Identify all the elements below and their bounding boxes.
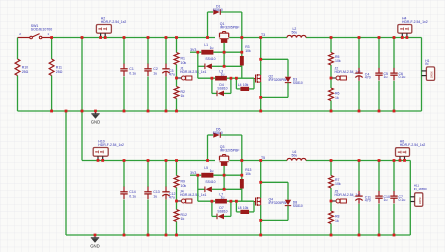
svg-text:10k: 10k	[335, 59, 341, 63]
svg-text:L8: L8	[238, 206, 242, 210]
svg-text:IRF3205PBF: IRF3205PBF	[220, 149, 240, 153]
svg-text:18650: 18650	[431, 71, 434, 79]
transistor Q1 IRF3205PBF	[219, 33, 221, 37]
svg-text:470: 470	[365, 75, 371, 79]
svg-text:1u: 1u	[153, 195, 157, 199]
svg-text:SS810: SS810	[293, 204, 303, 208]
wire C5 column	[378, 38, 380, 69]
resistor R2 1k	[174, 87, 179, 99]
svg-text:R11: R11	[56, 65, 62, 69]
wire divider column R1	[176, 38, 178, 53]
resistor R10 25	[15, 59, 20, 76]
wire left edge	[17, 38, 19, 60]
connector J4 HDR-M-2.54_1x1	[177, 200, 182, 202]
wire C14 column	[123, 161, 125, 188]
svg-text:10k: 10k	[335, 182, 341, 186]
svg-text:SS810: SS810	[213, 8, 223, 12]
svg-text:1u: 1u	[153, 72, 157, 76]
svg-text:R6: R6	[335, 91, 340, 95]
capacitor C13 1u	[147, 187, 149, 192]
capacitor C10 1u	[378, 191, 380, 196]
svg-text:0.1u: 0.1u	[129, 72, 136, 76]
svg-text:10k: 10k	[243, 83, 249, 87]
wire R3 bottom	[241, 66, 243, 79]
wire C2 column	[147, 38, 149, 65]
wire C12 column	[165, 161, 167, 188]
wire D1 right drop	[241, 12, 243, 56]
svg-text:10k: 10k	[181, 61, 187, 65]
transistor Q4 IRF3205PBF	[254, 201, 256, 203]
resistor R1 10k	[174, 53, 179, 65]
wire R11 column	[51, 38, 53, 60]
svg-text:HDR-F-2.54_1x2: HDR-F-2.54_1x2	[98, 143, 124, 147]
svg-text:50u: 50u	[292, 153, 298, 157]
junction dots layer	[50, 36, 408, 236]
inductor L5 1u	[198, 174, 202, 176]
svg-text:10k: 10k	[245, 172, 251, 176]
wire Q4 source	[260, 205, 262, 235]
svg-text:10k: 10k	[181, 184, 187, 188]
inductor L3 1u	[198, 77, 215, 79]
resistor R8 1k	[329, 211, 334, 224]
svg-text:1u: 1u	[384, 75, 388, 79]
wire R13 bottom	[241, 189, 243, 202]
resistor R3 10k	[240, 56, 244, 66]
wire gate stem Q3	[223, 166, 225, 175]
wire right divider column R7	[330, 161, 332, 176]
wire right edge channel 2	[409, 160, 411, 235]
svg-text:R9: R9	[181, 180, 186, 184]
svg-text:1k: 1k	[181, 217, 185, 221]
svg-text:10k: 10k	[243, 206, 249, 210]
svg-text:10k: 10k	[245, 49, 251, 53]
diode D1 SS810	[208, 11, 214, 13]
svg-text:1u: 1u	[221, 196, 225, 200]
wire C10 column	[378, 161, 380, 192]
capacitor C7 0.1u	[393, 191, 395, 196]
svg-text:0.1u: 0.1u	[399, 198, 406, 202]
svg-text:25Ω: 25Ω	[22, 70, 29, 74]
wire Q2 drain	[260, 38, 262, 75]
svg-text:3V3: 3V3	[190, 171, 196, 175]
resistor R11 25	[49, 59, 54, 76]
svg-text:SS810: SS810	[293, 81, 303, 85]
svg-text:SS410: SS410	[205, 180, 215, 184]
inductor L7 1u	[198, 200, 215, 202]
wire Q4 drain	[260, 161, 262, 198]
svg-text:SS810: SS810	[217, 87, 227, 91]
transistor Q2 IRF3205PBF	[254, 78, 256, 80]
svg-text:R12: R12	[181, 213, 187, 217]
connector J1 HDR-M-2.54_1x1	[177, 77, 182, 79]
svg-text:R7: R7	[335, 178, 340, 182]
wire gate column	[223, 175, 225, 189]
svg-text:0.1u: 0.1u	[129, 195, 136, 199]
svg-text:1u: 1u	[221, 73, 225, 77]
wire C3 column	[165, 38, 167, 65]
svg-text:GND: GND	[91, 119, 101, 124]
inductor L1 1u	[198, 51, 202, 53]
svg-text:HDR-F-2.54_1x2: HDR-F-2.54_1x2	[402, 20, 428, 24]
wire top rail	[82, 160, 215, 162]
svg-text:3V3: 3V3	[190, 48, 196, 52]
capacitor C3 47u	[165, 64, 167, 69]
svg-text:L4: L4	[238, 83, 242, 87]
svg-text:1k: 1k	[335, 219, 339, 223]
svg-text:1k: 1k	[335, 96, 339, 100]
transistor Q3 IRF3205PBF	[219, 156, 221, 160]
connector H7 XT60	[415, 193, 423, 207]
svg-text:L1: L1	[204, 43, 208, 47]
svg-text:HDR-M-2.54_1x1: HDR-M-2.54_1x1	[180, 193, 206, 197]
wire bottom rail	[66, 234, 410, 236]
capacitor C5 1u	[378, 68, 380, 73]
svg-text:GND: GND	[90, 243, 100, 248]
wire interconnect column B	[65, 111, 67, 235]
connector H4 HDR-F-2.54_1x2	[398, 25, 412, 34]
svg-text:C13: C13	[153, 190, 159, 194]
resistor L8 10k	[235, 201, 237, 212]
wire C13 column	[147, 161, 149, 188]
connector J5 HDR-M-2.54_1x1	[331, 200, 336, 202]
connector H6 HDR-F-2.54_1x2	[396, 148, 410, 157]
svg-text:L5: L5	[204, 166, 208, 170]
svg-text:1k: 1k	[181, 94, 185, 98]
svg-text:47u: 47u	[169, 196, 175, 200]
wire C1 column	[123, 38, 125, 65]
svg-text:R5: R5	[335, 55, 340, 59]
svg-text:1u: 1u	[384, 198, 388, 202]
svg-text:0.1u: 0.1u	[399, 75, 406, 79]
svg-text:R8: R8	[335, 214, 340, 218]
wire 3V3 stub	[190, 51, 198, 53]
capacitor C14 0.1u	[123, 187, 125, 192]
svg-text:HDR-F-2.54_1x2: HDR-F-2.54_1x2	[101, 20, 127, 24]
resistor L4 10k	[235, 78, 237, 89]
capacitor C1 0.1u	[123, 64, 125, 69]
wire C4 column	[358, 38, 360, 69]
wire gate stem Q1	[223, 43, 225, 52]
svg-text:1u: 1u	[210, 46, 214, 50]
svg-text:SODJE10700: SODJE10700	[31, 27, 52, 31]
wire C11 column	[358, 161, 360, 192]
ground GND channel 1	[95, 111, 97, 114]
wire C7 column	[393, 161, 395, 192]
wire right edge channel 1	[421, 38, 423, 112]
diode D6 SS410	[197, 175, 199, 201]
svg-text:50u: 50u	[292, 30, 298, 34]
svg-text:R1: R1	[181, 57, 186, 61]
svg-text:R2: R2	[181, 90, 186, 94]
wire Q2 source	[260, 82, 262, 111]
connector H1 XT60	[426, 67, 434, 81]
resistor R12 1k	[174, 210, 179, 222]
wire top rail	[52, 37, 215, 39]
capacitor C11 470	[358, 191, 360, 196]
wire gate column	[223, 52, 225, 66]
resistor R9 10k	[174, 176, 179, 188]
inductor L6 50u	[287, 158, 306, 160]
svg-text:SS810: SS810	[217, 210, 227, 214]
svg-text:470: 470	[365, 198, 371, 202]
capacitor C2 1u	[147, 64, 149, 69]
svg-text:1u: 1u	[210, 169, 214, 173]
svg-text:C2: C2	[153, 67, 158, 71]
inductor L2 50u	[287, 35, 306, 37]
capacitor C12 47u	[165, 187, 167, 192]
resistor R13 10k	[240, 179, 244, 189]
capacitor C6 0.1u	[393, 68, 395, 73]
svg-text:25Ω: 25Ω	[56, 70, 63, 74]
wire D5 right drop	[241, 135, 243, 179]
svg-text:R10: R10	[22, 65, 28, 69]
svg-text:C1: C1	[129, 67, 134, 71]
capacitor C4 470	[358, 68, 360, 73]
svg-text:SS410: SS410	[205, 57, 215, 61]
diode D5 SS810	[208, 134, 214, 136]
switch SW1 SODJE10700	[18, 37, 30, 39]
wire interconnect column A	[81, 38, 83, 161]
diode D4 SS810	[211, 78, 213, 93]
wire D5 left drop	[207, 135, 209, 161]
diode D2 SS410	[197, 52, 199, 78]
svg-text:47u: 47u	[169, 73, 175, 77]
wire 3V3 stub	[190, 174, 198, 176]
svg-text:18650: 18650	[419, 197, 422, 205]
svg-text:HDR-M-2.54_1x1: HDR-M-2.54_1x1	[180, 70, 206, 74]
svg-text:HDR-F-2.54_1x2: HDR-F-2.54_1x2	[400, 143, 426, 147]
svg-text:SS810: SS810	[213, 131, 223, 135]
connector H10 HDR-F-2.54_1x2	[93, 148, 108, 157]
resistor R6 1k	[329, 88, 334, 101]
wire divider column R9	[176, 161, 178, 176]
connector J2 HDR-M-2.54_1x1	[331, 77, 336, 79]
connector H2 HDR-F-2.54_1x2	[96, 25, 111, 34]
resistor R5 10k	[329, 53, 334, 66]
diode D3 SS810	[261, 58, 288, 60]
svg-text:IN_18650: IN_18650	[414, 187, 427, 191]
diode D8 SS810	[261, 181, 288, 183]
ground GND channel 2	[94, 235, 96, 238]
svg-text:C14: C14	[129, 190, 135, 194]
diode D7 SS810	[211, 201, 213, 216]
wire D1 left drop	[207, 12, 209, 38]
wire bottom rail	[18, 110, 422, 112]
wire C6 column	[393, 38, 395, 69]
svg-text:IRF3205PBF: IRF3205PBF	[269, 78, 288, 82]
wire right divider column R5	[330, 38, 332, 53]
svg-text:IRF3205PBF: IRF3205PBF	[269, 201, 288, 205]
svg-text:IRF3205PBF: IRF3205PBF	[220, 26, 240, 30]
resistor R7 10k	[329, 176, 334, 189]
